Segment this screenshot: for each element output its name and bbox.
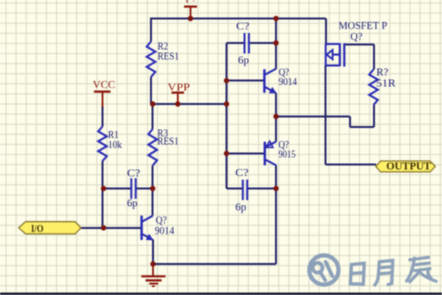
svg-text:RES1: RES1 bbox=[158, 51, 179, 63]
svg-text:C?: C? bbox=[127, 167, 140, 179]
svg-text:Q?: Q? bbox=[350, 31, 362, 43]
svg-text:V+: V+ bbox=[184, 0, 197, 6]
svg-text:OUTPUT: OUTPUT bbox=[386, 160, 431, 172]
svg-text:10k: 10k bbox=[108, 139, 122, 151]
svg-text:9014: 9014 bbox=[155, 225, 175, 237]
svg-text:I/O: I/O bbox=[31, 223, 44, 235]
svg-text:RES1: RES1 bbox=[157, 136, 178, 148]
svg-text:VCC: VCC bbox=[93, 79, 115, 91]
svg-text:6p: 6p bbox=[238, 54, 250, 66]
svg-text:VPP: VPP bbox=[168, 81, 191, 93]
svg-text:9014: 9014 bbox=[279, 76, 298, 88]
svg-text:C?: C? bbox=[236, 21, 249, 33]
svg-text:9015: 9015 bbox=[279, 149, 296, 161]
svg-text:6p: 6p bbox=[127, 198, 138, 210]
svg-text:C?: C? bbox=[235, 167, 248, 179]
svg-text:51R: 51R bbox=[376, 78, 396, 90]
svg-text:6p: 6p bbox=[235, 201, 247, 213]
svg-text:MOSFET P: MOSFET P bbox=[339, 20, 388, 32]
